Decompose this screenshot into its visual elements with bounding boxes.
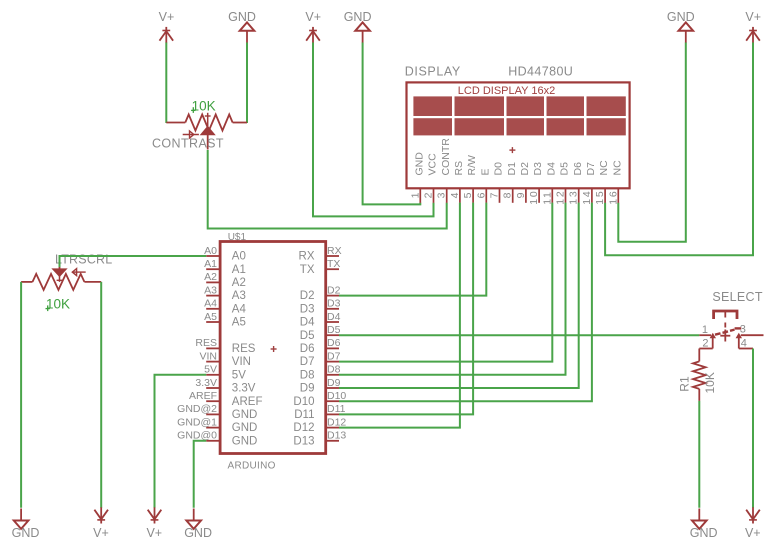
- resistor R1 body: [693, 361, 706, 389]
- svg-text:D9: D9: [327, 377, 341, 389]
- svg-text:E: E: [479, 168, 491, 175]
- svg-text:LCD DISPLAY 16x2: LCD DISPLAY 16x2: [458, 85, 555, 97]
- label LCD DISPLAY 16x2: [458, 85, 555, 97]
- wire R1 to bottom GND: [698, 401, 700, 508]
- label 10K (contrast value): [191, 98, 216, 113]
- wire 5V to bottom V+: [155, 375, 207, 508]
- svg-text:GND: GND: [232, 409, 258, 421]
- Arduino right pin stubs: [326, 256, 339, 441]
- Arduino U$1 outline: [220, 242, 326, 454]
- svg-text:D6: D6: [300, 343, 315, 355]
- LCD pin number labels: [409, 190, 619, 205]
- svg-text:D7: D7: [585, 162, 597, 176]
- svg-text:ARDUINO: ARDUINO: [228, 461, 276, 472]
- svg-text:RS: RS: [453, 161, 465, 176]
- svg-text:D5: D5: [559, 162, 571, 176]
- potentiometer CONTRAST leads: [166, 122, 247, 124]
- svg-text:D8: D8: [300, 369, 315, 381]
- wire D5 to switch pin 1: [339, 334, 699, 336]
- svg-text:AREF: AREF: [189, 390, 217, 402]
- svg-text:D10: D10: [293, 396, 314, 408]
- wire LTRSCRL left to GND: [20, 282, 22, 508]
- switch lever: [715, 328, 741, 334]
- ground GND (bottom, GND@0): [184, 509, 212, 541]
- svg-text:GND: GND: [667, 10, 695, 24]
- svg-text:A1: A1: [232, 264, 246, 276]
- svg-text:R/W: R/W: [466, 155, 478, 176]
- potentiometer LTRSCRL adjust arrow: [72, 269, 86, 276]
- svg-text:D7: D7: [300, 356, 315, 368]
- label DISPLAY: [405, 65, 461, 79]
- svg-text:10K: 10K: [703, 372, 717, 393]
- LCD pins 1-16 stubs: [420, 188, 618, 203]
- label 10K (ltrscrl value): [46, 297, 71, 312]
- svg-text:CONTRAST: CONTRAST: [152, 137, 224, 151]
- svg-text:AREF: AREF: [232, 396, 263, 408]
- LCD module U2 outline: [407, 82, 630, 188]
- svg-text:D2: D2: [519, 162, 531, 176]
- label HD44780U: [508, 65, 573, 79]
- potentiometer LTRSCRL body: [33, 274, 85, 290]
- svg-text:GND: GND: [12, 526, 40, 540]
- svg-text:D4: D4: [545, 162, 557, 176]
- Arduino left inner labels: [232, 251, 263, 448]
- svg-text:D6: D6: [327, 337, 341, 349]
- svg-text:R1: R1: [678, 376, 692, 392]
- potentiometer CONTRAST body: [185, 115, 232, 131]
- svg-text:A3: A3: [232, 290, 246, 302]
- wire GND@0 to bottom GND: [194, 441, 207, 508]
- supply V+ (top right, LCD pin 15): [745, 10, 761, 43]
- switch pin 3 stub: [736, 333, 764, 339]
- svg-text:A4: A4: [204, 298, 217, 310]
- svg-text:V+: V+: [745, 526, 761, 540]
- supply V+ (bottom, 5V): [146, 507, 162, 540]
- wire GND to LCD pin 1: [363, 43, 421, 205]
- svg-text:V+: V+: [93, 526, 109, 540]
- label U$1: [228, 232, 247, 243]
- svg-text:DISPLAY: DISPLAY: [405, 65, 461, 79]
- svg-text:3: 3: [436, 191, 448, 199]
- wire R/W to D11: [339, 203, 473, 415]
- svg-text:V+: V+: [146, 526, 162, 540]
- label 1: [702, 324, 708, 336]
- svg-text:D5: D5: [327, 324, 341, 336]
- label SELECT: [712, 290, 762, 304]
- svg-text:1: 1: [702, 324, 708, 336]
- Arduino right inner labels: [293, 251, 315, 448]
- svg-text:A5: A5: [232, 317, 246, 329]
- wire LTRSCRL right to V+: [100, 282, 102, 508]
- label 2: [702, 338, 708, 350]
- supply V+ (top, LCD VCC): [305, 10, 321, 43]
- svg-text:GND: GND: [184, 526, 212, 540]
- ground GND (top right, LCD pin 16): [667, 10, 695, 43]
- LCD pin name labels: [413, 138, 623, 176]
- svg-text:RES: RES: [232, 343, 256, 355]
- svg-text:NC: NC: [611, 160, 623, 176]
- svg-text:10: 10: [528, 190, 540, 205]
- svg-text:D4: D4: [300, 317, 315, 329]
- svg-text:VCC: VCC: [427, 153, 439, 176]
- svg-text:GND: GND: [228, 10, 256, 24]
- supply V+ (top left, contrast pot): [159, 10, 175, 43]
- label ARDUINO: [228, 461, 276, 472]
- svg-text:GND: GND: [413, 152, 425, 176]
- svg-text:D5: D5: [300, 330, 315, 342]
- LCD character cells: [413, 96, 625, 135]
- svg-text:D8: D8: [327, 364, 341, 376]
- svg-text:GND@1: GND@1: [177, 416, 217, 428]
- wire RS to D12: [339, 203, 460, 428]
- svg-text:D13: D13: [327, 430, 346, 442]
- svg-text:3.3V: 3.3V: [195, 377, 217, 389]
- svg-text:V+: V+: [159, 10, 175, 24]
- svg-text:D0: D0: [493, 162, 505, 176]
- svg-text:A0: A0: [204, 245, 217, 257]
- svg-text:D2: D2: [300, 290, 315, 302]
- svg-text:12: 12: [555, 190, 567, 205]
- svg-text:D9: D9: [300, 383, 315, 395]
- svg-text:10K: 10K: [192, 98, 216, 113]
- label 10K (R1 value): [703, 372, 717, 393]
- svg-text:A5: A5: [204, 311, 217, 323]
- wire contrast wiper to LCD pin 3: [208, 150, 447, 229]
- svg-text:GND: GND: [232, 422, 258, 434]
- svg-text:RX: RX: [299, 251, 315, 263]
- potentiometer CONTRAST adjust arrow: [183, 131, 199, 138]
- ground GND (top, LCD pin 1): [344, 10, 372, 43]
- svg-text:GND: GND: [690, 526, 718, 540]
- potentiometer LTRSCRL wiper: [53, 267, 67, 282]
- svg-text:HD44780U: HD44780U: [508, 65, 573, 79]
- resistor R1 leads: [698, 349, 700, 401]
- wire LCD D7 to D10: [339, 203, 592, 402]
- svg-text:9: 9: [515, 191, 527, 199]
- Arduino right pin labels: [327, 245, 346, 442]
- label R1: [678, 376, 692, 392]
- svg-text:2: 2: [702, 338, 708, 350]
- svg-text:D3: D3: [327, 298, 341, 310]
- label 4: [741, 338, 747, 350]
- Arduino origin cross: [271, 346, 277, 352]
- wire LCD D5 to D8: [339, 203, 566, 375]
- svg-text:TX: TX: [327, 258, 340, 270]
- svg-text:10K: 10K: [46, 297, 70, 312]
- supply V+ (bottom, switch): [745, 507, 761, 540]
- label LTRSCRL: [55, 253, 112, 267]
- svg-text:GND: GND: [232, 435, 258, 447]
- wire V+ to LCD pin 15: [605, 43, 753, 256]
- svg-text:1: 1: [409, 191, 421, 199]
- svg-text:D12: D12: [293, 422, 314, 434]
- svg-text:V+: V+: [305, 10, 321, 24]
- Arduino left pin stubs: [206, 256, 220, 441]
- switch pin 1 stub: [699, 333, 716, 339]
- svg-text:V+: V+: [745, 10, 761, 24]
- svg-text:NC: NC: [598, 160, 610, 176]
- ground GND (bottom, R1): [690, 509, 718, 541]
- ground GND (bottom, LTRSCRL): [12, 509, 40, 541]
- svg-text:D4: D4: [327, 311, 341, 323]
- svg-text:5V: 5V: [232, 369, 246, 381]
- svg-text:LTRSCRL: LTRSCRL: [55, 253, 112, 267]
- switch actuator: [714, 311, 737, 342]
- wire GND to LCD pin 16: [618, 43, 686, 242]
- wire LCD D4 to D7: [339, 203, 552, 362]
- svg-text:D3: D3: [300, 303, 315, 315]
- svg-text:SELECT: SELECT: [712, 290, 762, 304]
- svg-text:D11: D11: [294, 409, 314, 421]
- svg-text:4: 4: [741, 338, 747, 350]
- svg-text:14: 14: [581, 190, 593, 205]
- supply V+ (bottom, LTRSCRL): [93, 507, 109, 540]
- svg-text:D2: D2: [327, 284, 341, 296]
- svg-text:4: 4: [449, 191, 461, 199]
- svg-text:D1: D1: [506, 162, 518, 176]
- wire GND to contrast pot right: [246, 43, 248, 124]
- svg-text:15: 15: [594, 190, 606, 205]
- svg-text:D7: D7: [327, 350, 341, 362]
- label CONTRAST: [152, 137, 224, 151]
- LCD origin cross: [509, 147, 515, 153]
- potentiometer LTRSCRL leads: [21, 281, 101, 283]
- switch pin 4 stub: [739, 335, 753, 348]
- potentiometer CONTRAST wiper: [201, 113, 215, 150]
- svg-text:A3: A3: [204, 284, 217, 296]
- switch pin 2 stub: [699, 335, 712, 348]
- svg-text:VIN: VIN: [199, 350, 217, 362]
- svg-text:CONTR: CONTR: [440, 138, 452, 176]
- ground GND (top, contrast pot): [228, 10, 256, 43]
- svg-text:A2: A2: [232, 277, 246, 289]
- svg-text:13: 13: [568, 190, 580, 205]
- svg-text:5: 5: [462, 191, 474, 199]
- wire V+ to contrast pot left: [165, 43, 167, 124]
- svg-text:2: 2: [423, 191, 435, 199]
- svg-text:3: 3: [740, 324, 746, 336]
- wire switch pin 4 to bottom V+: [752, 349, 754, 508]
- svg-text:6: 6: [475, 191, 487, 199]
- svg-text:VIN: VIN: [232, 356, 251, 368]
- svg-text:D3: D3: [532, 162, 544, 176]
- svg-text:8: 8: [502, 191, 514, 199]
- svg-text:A0: A0: [232, 251, 246, 263]
- svg-text:D6: D6: [572, 162, 584, 176]
- svg-text:D13: D13: [293, 435, 314, 447]
- svg-text:TX: TX: [300, 264, 315, 276]
- label 3: [740, 324, 746, 336]
- svg-text:A2: A2: [204, 271, 217, 283]
- svg-text:A4: A4: [232, 303, 247, 315]
- svg-text:GND@2: GND@2: [177, 403, 217, 415]
- wire V+ to LCD pin 2 VCC: [313, 43, 434, 217]
- svg-text:A1: A1: [204, 258, 217, 270]
- Arduino left pin labels: [177, 245, 217, 442]
- svg-text:RES: RES: [195, 337, 217, 349]
- svg-text:GND: GND: [344, 10, 372, 24]
- wire LCD D6 to D9: [339, 203, 579, 388]
- svg-text:3.3V: 3.3V: [232, 383, 256, 395]
- svg-text:16: 16: [607, 190, 619, 205]
- svg-text:7: 7: [489, 191, 501, 199]
- svg-text:RX: RX: [327, 245, 342, 257]
- wire E to D2: [339, 203, 486, 296]
- wire LTRSCRL wiper to A0: [60, 256, 207, 268]
